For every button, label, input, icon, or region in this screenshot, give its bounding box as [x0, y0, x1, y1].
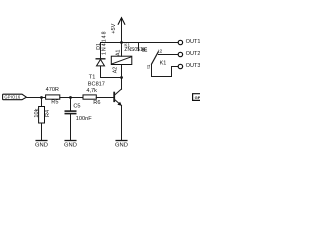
wire NC contact stub: [138, 43, 140, 51]
terminal OUT3: [178, 63, 200, 69]
svg-text:C5: C5: [73, 103, 80, 109]
wire junction B down to C5: [70, 98, 72, 111]
relay coil K1 ZNS051E: [111, 42, 148, 73]
wire C5 to GND2: [70, 114, 72, 141]
resistor R6 (4,7k): [83, 88, 100, 106]
svg-text:4,7k: 4,7k: [86, 88, 97, 94]
junction C (collector node): [120, 76, 123, 79]
svg-text:K1: K1: [160, 60, 167, 66]
net flag at right edge: [193, 94, 201, 101]
terminal OUT1: [178, 39, 200, 45]
junction B: [69, 96, 72, 99]
resistor R5 (470R): [46, 87, 60, 105]
svg-text:GND: GND: [115, 143, 128, 149]
wire collector up to junction C: [121, 78, 123, 90]
wire diode cathode up to top net: [100, 43, 102, 59]
wire R5 to R6: [60, 97, 83, 99]
svg-text:A1: A1: [116, 50, 122, 56]
svg-text:t1: t1: [146, 64, 151, 68]
svg-text:A2: A2: [113, 67, 119, 73]
wire coil pin A1: [121, 43, 123, 57]
capacitor C5 (100nF): [65, 103, 92, 122]
svg-text:t2: t2: [158, 49, 162, 54]
wire R4 to GND1: [41, 123, 43, 140]
svg-text:GND: GND: [35, 143, 48, 149]
svg-text:BC817: BC817: [88, 82, 105, 88]
terminal OUT2: [178, 51, 200, 57]
junction A: [40, 96, 43, 99]
ground GND3: [115, 141, 128, 149]
resistor R4 (10k): [34, 107, 51, 124]
svg-text:R6: R6: [93, 100, 100, 106]
svg-text:GP: GP: [195, 95, 200, 100]
relay contact K1 lever: [146, 49, 166, 69]
wire flag to junction A: [26, 97, 46, 99]
wire bottom L-path to OUT3: [152, 67, 172, 77]
svg-text:R4: R4: [45, 110, 51, 117]
wire emitter down to GND3: [121, 106, 123, 141]
junction D (+5V node): [120, 41, 123, 44]
svg-text:+5V: +5V: [111, 23, 117, 33]
wire OUT2 segment: [158, 54, 178, 56]
diode D1 (1N4148): [96, 31, 108, 66]
svg-text:OUT1: OUT1: [186, 39, 200, 45]
wire OUT1 segment: [139, 42, 179, 44]
ground GND2: [64, 141, 77, 149]
wire coil pin A2 to junction C: [121, 65, 123, 78]
svg-text:ZNS051: ZNS051: [124, 47, 143, 53]
svg-text:OUT2: OUT2: [186, 51, 200, 57]
svg-text:10k: 10k: [34, 108, 40, 117]
svg-text:OUT3: OUT3: [186, 63, 200, 69]
net flag GPIO16: [3, 94, 27, 100]
ground GND1: [35, 141, 48, 149]
svg-text:GPIO16: GPIO16: [4, 94, 20, 99]
wire junction A down to R4: [41, 98, 43, 107]
svg-text:1N4148: 1N4148: [102, 31, 108, 55]
transistor T1 BC817: [88, 75, 122, 106]
svg-text:R5: R5: [51, 99, 58, 105]
wire t1 pivot down: [151, 64, 153, 76]
supply +5V: [111, 18, 125, 43]
wire OUT3 stub: [172, 66, 179, 68]
svg-text:100nF: 100nF: [76, 116, 92, 122]
wire top net to contact stub: [101, 42, 139, 44]
wire diode anode L-path to junction C: [101, 66, 122, 78]
wire R6 to T1 base: [96, 97, 113, 99]
svg-text:GND: GND: [64, 143, 77, 149]
svg-text:470R: 470R: [46, 87, 59, 93]
svg-text:T1: T1: [89, 75, 96, 81]
